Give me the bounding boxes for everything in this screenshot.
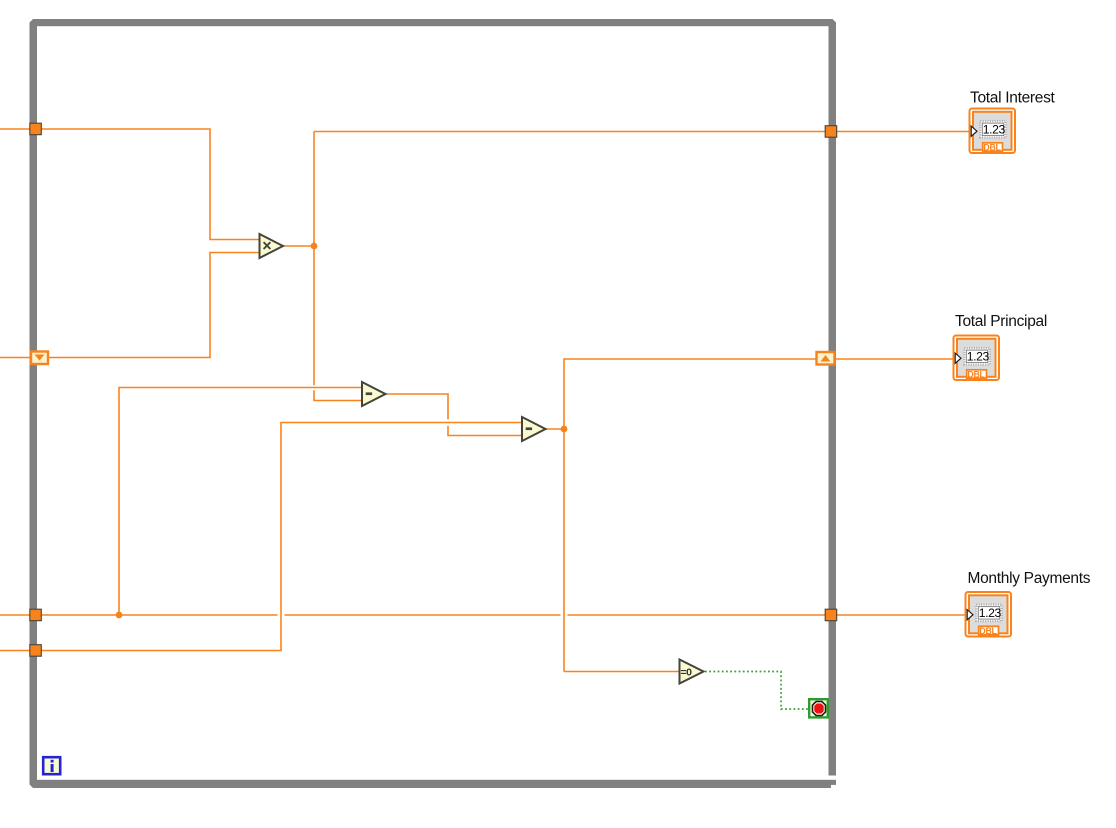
subtract function 2 bbox=[522, 417, 546, 441]
svg-text:Total Principal: Total Principal bbox=[955, 313, 1047, 330]
wire: subtract1 output to subtract2 bottom input (gap at crossing) bbox=[387, 394, 522, 436]
wire: left shift register to multiply bottom input bbox=[0, 253, 261, 358]
wire: lower-left tunnel to subtract2 top input bbox=[0, 423, 521, 651]
wire: multiply output to junction bbox=[283, 245, 314, 247]
indicator: Monthly Payments bbox=[966, 592, 1012, 637]
equal to zero function bbox=[680, 660, 704, 684]
while loop frame bbox=[30, 19, 837, 788]
wire: left input 1 to multiply top input bbox=[0, 129, 261, 240]
wire: Total Interest horizontal to right tunnel and indicator bbox=[314, 131, 972, 133]
tunnel: right Total Interest output bbox=[825, 126, 837, 138]
wire: green dotted to stop terminal bbox=[705, 672, 808, 710]
tunnel: left Monthly Payments input bbox=[30, 609, 42, 621]
indicator: Total Principal bbox=[954, 336, 1000, 381]
shift register right (up arrow) bbox=[817, 352, 835, 365]
tunnel: right Monthly Payments output bbox=[825, 609, 837, 621]
junction at multiply output bbox=[311, 243, 318, 250]
iteration terminal i bbox=[43, 757, 60, 774]
subtract function 1 bbox=[362, 382, 386, 406]
indicator: Total Interest bbox=[970, 109, 1016, 154]
wire: Monthly Payments long horizontal (with crossing gaps) bbox=[0, 614, 968, 616]
tunnel: left lower input bbox=[30, 645, 42, 657]
junction at subtract2 output bbox=[561, 426, 568, 433]
wire: junction up to subtract1 top input bbox=[119, 388, 361, 616]
wire: right shift register to Total Principal indicator bbox=[836, 358, 956, 360]
junction on Monthly Payments wire bbox=[116, 612, 123, 619]
wire: subtract2 output to junction, up to right shift register, down to equal-zero bbox=[546, 359, 817, 672]
shift register left (down arrow) bbox=[31, 352, 48, 365]
multiply function bbox=[260, 234, 284, 258]
svg-text:=0: =0 bbox=[681, 667, 693, 679]
tunnel: left input 1 bbox=[30, 123, 42, 135]
stop button terminal bbox=[809, 699, 828, 717]
svg-text:Monthly Payments: Monthly Payments bbox=[968, 570, 1091, 587]
wire: vertical from Total Interest branch down to subtract1 bottom input (gap at crossing) bbox=[313, 132, 315, 386]
svg-text:Total Interest: Total Interest bbox=[970, 90, 1056, 107]
